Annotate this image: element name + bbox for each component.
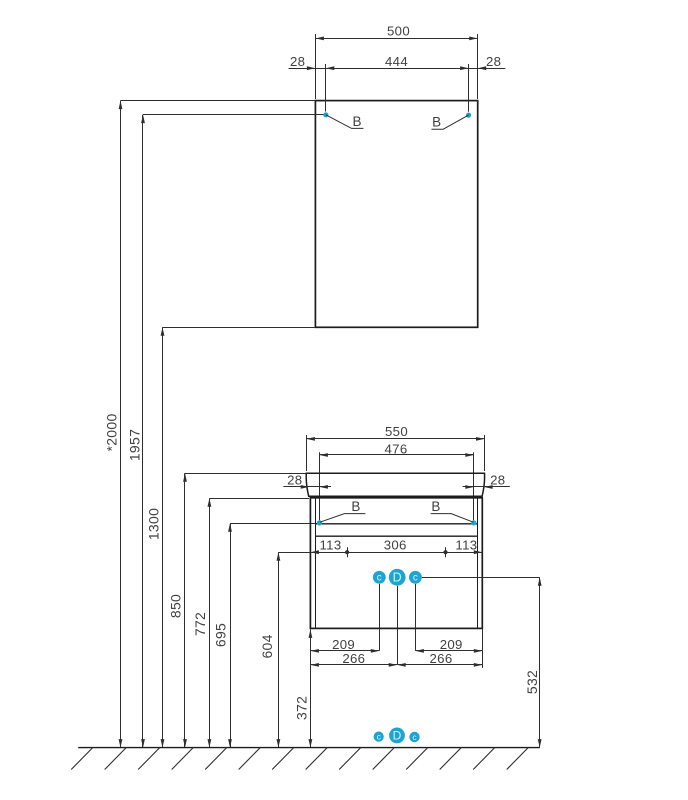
svg-text:B: B xyxy=(431,499,440,514)
fixing point B left (cabinet) with leader xyxy=(317,499,366,525)
fixing point B left (mirror) with leader xyxy=(323,112,363,129)
drop line from right c marker xyxy=(415,584,417,651)
svg-text:500: 500 xyxy=(387,24,410,39)
connection marker c left (floor) xyxy=(374,731,384,741)
svg-text:c: c xyxy=(413,573,418,584)
svg-text:28: 28 xyxy=(490,472,505,487)
svg-text:1957: 1957 xyxy=(127,429,143,461)
svg-text:772: 772 xyxy=(192,612,208,636)
fixing point B right (cabinet) with leader xyxy=(431,499,477,525)
reference line at 2000 (mirror top) xyxy=(121,100,316,102)
connection marker c right (cabinet) xyxy=(409,571,422,584)
height dimension *2000 (vertical) xyxy=(104,101,123,748)
height dimension 695 (vertical) xyxy=(213,523,232,747)
svg-text:c: c xyxy=(377,573,382,584)
svg-text:444: 444 xyxy=(385,54,408,69)
svg-text:266: 266 xyxy=(430,651,453,666)
svg-text:c: c xyxy=(377,731,382,741)
svg-text:209: 209 xyxy=(332,637,355,652)
connection marker D centre (floor) xyxy=(389,728,405,744)
svg-text:28: 28 xyxy=(486,54,501,69)
dimension 266 right xyxy=(397,651,482,667)
reference line at 850 (washbasin top) xyxy=(185,473,306,475)
floor line xyxy=(78,747,540,749)
drop line from left c marker xyxy=(379,584,381,651)
svg-text:*2000: *2000 xyxy=(104,413,120,451)
svg-text:B: B xyxy=(353,114,362,129)
dimensions 113 / 306 / 113 (drain positions) xyxy=(278,538,482,558)
dimensions 28 / 444 / 28 (mirror fixing points) xyxy=(289,54,506,112)
svg-text:550: 550 xyxy=(385,424,408,439)
svg-text:476: 476 xyxy=(385,442,408,457)
svg-text:113: 113 xyxy=(320,538,342,553)
svg-text:28: 28 xyxy=(287,472,302,487)
connection marker c left (cabinet) xyxy=(373,571,386,584)
height dimension 1300 (vertical) xyxy=(146,327,165,747)
dimension 266 left xyxy=(310,651,397,667)
connection marker D centre (cabinet) xyxy=(389,569,406,586)
dimension 550 (washbasin width) xyxy=(306,424,484,471)
svg-text:695: 695 xyxy=(213,623,229,647)
reference line at 772 (cabinet top) xyxy=(209,498,309,500)
washbasin outline xyxy=(306,473,484,496)
svg-text:372: 372 xyxy=(293,696,309,720)
height dimension 372 (vertical) xyxy=(293,629,312,747)
svg-text:28: 28 xyxy=(290,54,305,69)
drop line from D marker xyxy=(397,586,399,665)
svg-text:532: 532 xyxy=(524,670,540,694)
reference line at 1300 (mirror bottom) xyxy=(163,327,316,329)
svg-text:604: 604 xyxy=(259,634,275,658)
svg-text:1300: 1300 xyxy=(146,508,162,540)
dimension 476 (cabinet fixing span) xyxy=(319,442,473,521)
height dimension 604 (vertical) xyxy=(259,552,280,747)
dimension 28 left (vanity) xyxy=(283,472,331,489)
dimension 532 (height of connections) xyxy=(422,577,542,747)
vanity cabinet outline xyxy=(310,498,482,629)
svg-text:B: B xyxy=(432,115,441,130)
svg-text:306: 306 xyxy=(384,538,407,553)
svg-text:209: 209 xyxy=(440,637,463,652)
floor hatching xyxy=(71,748,528,770)
connection marker c right (floor) xyxy=(409,732,419,742)
reference line at 695 (to cabinet B dot) xyxy=(230,523,317,525)
height dimension 1957 (vertical) xyxy=(127,115,145,748)
svg-text:266: 266 xyxy=(342,651,365,666)
extension below cabinet right edge xyxy=(482,628,484,668)
svg-text:B: B xyxy=(351,499,360,514)
dimension 28 right (vanity) xyxy=(463,472,510,489)
dimension 500 (mirror width) xyxy=(315,24,477,100)
svg-text:850: 850 xyxy=(168,594,184,618)
svg-text:113: 113 xyxy=(455,538,477,553)
fixing point B right (mirror) with leader xyxy=(432,113,472,130)
reference line at 1957 (to mirror B dot) xyxy=(143,114,323,116)
dimension 209 right xyxy=(415,637,482,653)
height dimension 772 (vertical) xyxy=(192,498,211,747)
svg-text:D: D xyxy=(393,728,402,742)
height dimension 850 (vertical) xyxy=(168,473,187,747)
svg-text:D: D xyxy=(393,571,402,585)
mirror cabinet outline xyxy=(315,101,477,328)
dimension 209 left xyxy=(310,637,379,653)
